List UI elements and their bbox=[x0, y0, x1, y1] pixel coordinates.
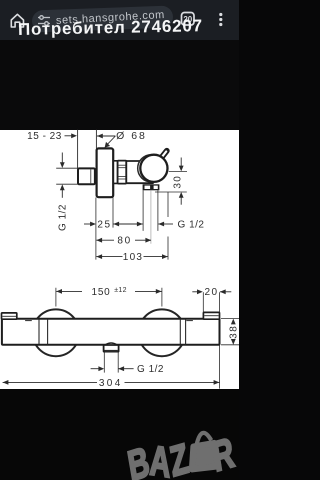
svg-text:B: B bbox=[125, 437, 153, 480]
url text bbox=[56, 9, 165, 27]
dim 150 extension line left bbox=[55, 288, 57, 307]
handle wing cap left bbox=[2, 313, 17, 319]
footer black band bbox=[0, 389, 239, 480]
dim 38 extension lines bbox=[221, 318, 239, 320]
handle joint lines left bbox=[38, 319, 40, 344]
dim 15-23 arrow bbox=[65, 135, 73, 137]
valve body (top view) bbox=[126, 161, 153, 183]
dim G1/2 bottom right arrow bbox=[158, 222, 164, 227]
thread extension lines bbox=[142, 190, 144, 231]
S-union fitting bbox=[78, 168, 95, 184]
handle joint lines right bbox=[179, 319, 181, 344]
dim G1/2 front extension lines bbox=[103, 352, 105, 372]
dim G1/2 left arrows bbox=[61, 153, 63, 164]
dim Ø68 diagonal leader bbox=[106, 136, 115, 146]
white drawing sheet bbox=[0, 130, 239, 389]
tab counter icon bbox=[182, 13, 195, 26]
menu kebab icon bbox=[219, 13, 222, 16]
dim G1/2 left extension lines bbox=[56, 167, 78, 169]
wall extension line right (escutcheon face) bbox=[95, 130, 97, 149]
dim 30 arrows bbox=[180, 158, 182, 167]
logo bag handle bbox=[196, 433, 212, 446]
dim G1/2 bottom left arrow bbox=[137, 222, 143, 227]
dim 25 right arrow + link bbox=[113, 222, 119, 227]
toolbar icons svg bbox=[0, 0, 239, 40]
dark page gap bbox=[0, 40, 239, 130]
technical drawing bbox=[0, 0, 239, 480]
locknut ring 2 with ridges bbox=[118, 161, 127, 184]
wall extension line left (15-23 min) bbox=[77, 130, 79, 169]
escutcheon extension line right bbox=[112, 198, 114, 228]
dim 304 arrows bbox=[3, 380, 9, 385]
mixer body bar (front) bbox=[2, 319, 220, 345]
right extension line (304/20) bbox=[219, 292, 221, 312]
thermostat handle (top view) bbox=[140, 155, 167, 182]
valve body front crescent bbox=[138, 155, 165, 182]
dim 20 left tail bbox=[192, 291, 197, 293]
outlet nipple (front) bbox=[104, 345, 119, 352]
page title bbox=[18, 16, 239, 41]
thermostat handle lever stub bbox=[161, 151, 167, 159]
handle ridge right bbox=[186, 320, 193, 322]
dim G1/2 front arrows bbox=[91, 368, 99, 370]
outlet centerline bbox=[150, 190, 152, 243]
home icon bbox=[11, 14, 23, 27]
outlet nipple dome (front) bbox=[105, 343, 117, 345]
dim 80 arrows bbox=[96, 238, 102, 243]
bazar.bg logo bbox=[0, 0, 239, 480]
escutcheon circle right (front) bbox=[139, 309, 186, 356]
dim 150 extension line right bbox=[161, 288, 163, 307]
S-union inner edge bbox=[90, 170, 92, 184]
handle extension line right bbox=[167, 192, 169, 217]
dim 25 left tail bbox=[84, 223, 91, 225]
url pill bbox=[31, 6, 173, 33]
escutcheon circle left (front) bbox=[33, 309, 80, 356]
logo bag A body bbox=[192, 443, 218, 469]
handle ridge left bbox=[25, 320, 32, 322]
dim 30 extension lines bbox=[169, 170, 187, 172]
locknut ring 1 bbox=[113, 161, 117, 184]
dim 20 right arrow bbox=[220, 289, 226, 294]
dim Ø68 leader arrow bbox=[97, 134, 103, 139]
dim 150 arrows bbox=[56, 289, 62, 294]
site settings icon bbox=[38, 16, 50, 26]
dim 20 extension line left bbox=[202, 292, 204, 312]
dim 103 arrows bbox=[96, 254, 102, 259]
handle wing cap right bbox=[203, 312, 219, 319]
dim 38 arrows bbox=[231, 319, 236, 325]
browser toolbar bbox=[0, 0, 239, 40]
outlet nipple (top view) bbox=[143, 184, 160, 190]
svg-text:Z: Z bbox=[167, 434, 192, 480]
escutcheon side view bbox=[97, 148, 114, 197]
escutcheon extension line left bbox=[95, 198, 97, 260]
